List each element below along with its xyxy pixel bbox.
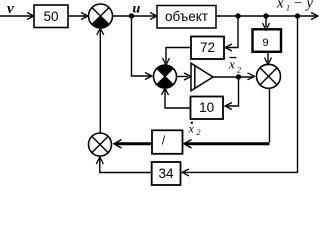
divider block / (152, 130, 183, 154)
arrowhead into divider block (184, 140, 192, 149)
wire node down into block 9 (265, 16, 267, 27)
summing junction S1 (89, 4, 113, 28)
wire summer to plant (113, 15, 156, 17)
wire M1 output to amplifier (177, 76, 189, 78)
svg-text:50: 50 (43, 9, 58, 24)
arrowhead into multiplier M1 left (145, 73, 152, 80)
wire x2bar down to block 10 (227, 80, 239, 106)
arrowhead into plant (150, 13, 157, 20)
svg-text:x1−y: x1−y (276, 0, 314, 12)
amplifier triangle (191, 63, 213, 91)
plant block объект (157, 6, 216, 29)
gain block 50 (34, 5, 68, 28)
wire amplifier output (213, 76, 254, 78)
wire 50 to summer (68, 15, 86, 17)
wire v input (0, 15, 33, 17)
gain block 9 (253, 29, 282, 52)
gain block 34 (152, 162, 181, 185)
gain block 72 (191, 37, 224, 60)
arrowhead into block 50 (27, 13, 34, 20)
svg-text:объект: объект (165, 9, 208, 24)
arrowhead up into summer S4 bottom (96, 157, 103, 164)
arrowhead up into summer S1 bottom (97, 28, 104, 35)
output arrowhead (311, 13, 318, 20)
gain block 10 (191, 97, 224, 120)
wire block 10 output to M1 bottom (165, 90, 191, 109)
node above block 9 (263, 13, 268, 18)
wire divider output to summer S4 (116, 142, 152, 145)
wire block 9 output to M2 (267, 52, 269, 62)
wire plant output (216, 15, 316, 17)
arrowhead into block 72 (225, 44, 232, 51)
wire M2 output down and left to divider (269, 88, 271, 142)
summer S4 (89, 133, 112, 156)
arrowhead into summer S1 (81, 13, 88, 20)
wire node u down to multiplier M1 (132, 19, 151, 76)
node u junction dot (129, 13, 134, 18)
wire S4 output up to summer S1 (99, 30, 101, 133)
arrowhead into multiplier M2 (248, 73, 255, 80)
node after plant (235, 13, 240, 18)
svg-text:34: 34 (158, 166, 174, 181)
arrowhead into summer S4 (114, 140, 122, 149)
wire 72 output to multiplier M1 (166, 48, 191, 63)
arrowhead up into multiplier M1 bottom (162, 88, 169, 95)
node x2bar dot (236, 74, 241, 79)
node to block 34 (295, 13, 300, 18)
arrowhead into amplifier (184, 73, 191, 80)
svg-text:9: 9 (262, 37, 268, 49)
wire output down to block 72 (227, 16, 238, 48)
multiplier M1 (154, 65, 177, 88)
arrowhead into block 34 (182, 169, 189, 176)
svg-text:v: v (7, 1, 14, 17)
label x2 dot (191, 122, 193, 124)
multiplier M2 (257, 64, 281, 88)
svg-text:10: 10 (199, 100, 214, 115)
arrowhead down into multiplier M1 (163, 58, 170, 65)
arrowhead into block 9 (263, 23, 270, 30)
arrowhead into multiplier M2 top (265, 58, 272, 65)
wire block 34 output to S4 bottom (100, 159, 152, 173)
svg-text:u: u (133, 2, 141, 17)
wire output node down to block 34 (183, 16, 298, 172)
arrowhead into block 10 (225, 103, 232, 110)
svg-text:72: 72 (200, 40, 215, 55)
label x2 bar (230, 57, 237, 59)
